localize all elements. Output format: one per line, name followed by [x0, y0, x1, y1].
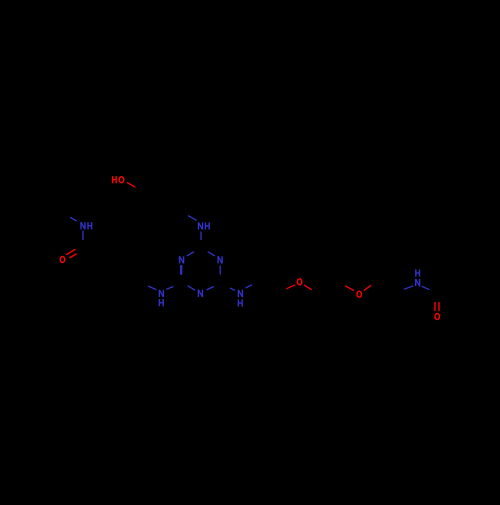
wire N-C(=O) half bond — [82, 231, 84, 241]
amide N-H label (left methylamide) — [81, 222, 92, 229]
triazine ring N1 (left) — [179, 256, 181, 263]
wire phenol O-C half bond — [127, 182, 135, 187]
wire CH2-N half bond — [404, 286, 413, 290]
ether O2 label (chain) — [357, 291, 361, 297]
amide H label (chain N-H) — [416, 269, 420, 276]
wire O2-CH2 half bond — [364, 285, 371, 290]
amide N label (chain) — [416, 279, 420, 286]
wire O1-CH2 half bond — [304, 285, 312, 290]
wire CH2-O1 half bond — [286, 285, 295, 289]
wire C=O double bond halves (left amide) — [66, 249, 76, 258]
amine N-H label lower-left of triazine — [159, 290, 163, 297]
wire ring N2-C4 half bond — [219, 266, 221, 275]
wire ring N3=C4 half bond — [207, 287, 214, 290]
wire ring C2-N2 half bond — [208, 252, 215, 256]
wire Car-NH half bond (to benzene) — [148, 286, 156, 290]
wire NH-C(triazine) half bond — [166, 287, 173, 290]
triazine ring N3 (bottom) — [197, 290, 199, 297]
ether O1 label (chain) — [297, 279, 301, 285]
wire ring N1=C6 double half bond — [180, 265, 182, 275]
carbonyl O label (right acrylamide) — [435, 314, 439, 320]
wire ring C6-N3 half bond — [188, 286, 196, 291]
hydroxyl HO label (phenol) — [113, 176, 124, 183]
wire CH2-NH half bond — [188, 216, 197, 221]
wire NH-C(triazine) half bond — [200, 232, 202, 241]
wire C(triazine)-NH half bond — [230, 288, 235, 290]
amine N-H label lower-right of triazine — [238, 290, 242, 297]
wire N-C(=O) half bond — [422, 286, 430, 290]
wire CH3-N half bond — [70, 217, 77, 221]
wire NH-CH2 half bond (to chain) — [246, 285, 252, 288]
wire C=O double bond halves (right) — [435, 302, 439, 311]
wire ring C2-N1 half bond — [187, 252, 194, 256]
amine N-H label above triazine — [199, 222, 210, 229]
triazine ring N2 (right) — [217, 256, 219, 263]
carbonyl O label (left amide) — [60, 257, 64, 263]
wire CH2-O2 half bond — [345, 286, 354, 291]
